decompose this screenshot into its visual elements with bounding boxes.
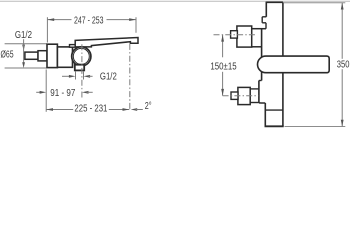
bottom neck lines — [250, 88, 259, 90]
outlet top interior line — [265, 109, 283, 111]
dimension 225-231 arrows — [46, 108, 53, 111]
2 degree reference dash-dot line — [129, 44, 131, 109]
dimension 350 extension line bottom — [285, 126, 346, 128]
dimension 91-97 left arrow (outside) — [36, 91, 40, 93]
top border line — [0, 0, 350, 2]
dimension Ø65 extension line bottom — [5, 67, 47, 69]
bottom edge of outlet — [265, 125, 284, 127]
dimension Ø65 line — [23, 44, 25, 63]
top outlet box: top edge — [266, 1, 283, 3]
top outlet box: left edge — [265, 2, 267, 17]
union collar — [38, 51, 47, 61]
svg-text:350: 350 — [337, 59, 350, 70]
dimension Ø65 bottom arrow — [22, 62, 25, 68]
svg-text:247 - 253: 247 - 253 — [74, 15, 104, 26]
shoulder line — [252, 28, 266, 30]
svg-text:2°: 2° — [145, 101, 152, 112]
lever handle (side view) — [75, 38, 138, 47]
lever bar (front view) — [258, 56, 330, 73]
outlet block — [75, 65, 84, 71]
cap step under lever — [70, 45, 76, 48]
svg-text:91 - 97: 91 - 97 — [50, 88, 75, 99]
svg-text:150±15: 150±15 — [210, 61, 237, 72]
bottom union centerline — [223, 95, 259, 97]
svg-text:G1/2: G1/2 — [100, 71, 117, 82]
dimension 247-253 extension line left — [46, 17, 48, 42]
valve body block — [57, 47, 72, 67]
dimension 247-253 arrow right — [129, 18, 136, 21]
body left edge below boss — [261, 72, 263, 81]
top union stub — [231, 31, 238, 38]
dimension 247-253 extension line right — [135, 17, 137, 33]
neck bottom line (top union) — [252, 46, 262, 48]
cartridge circle outer — [72, 47, 91, 66]
dimension 225-231 line — [46, 109, 73, 111]
body right edge (upper) — [282, 2, 284, 56]
top union centerline — [214, 34, 257, 36]
dimension Ø65 extension line top — [5, 43, 47, 45]
outlet G1/2 arrows — [62, 75, 71, 77]
svg-text:Ø65: Ø65 — [1, 49, 14, 60]
2 degree leader arrow — [131, 108, 138, 111]
dimension 350 arrows — [341, 3, 344, 10]
wall stub (G1/2 tail) — [25, 52, 38, 59]
bottom union flange — [238, 87, 250, 104]
vertical centerline through cartridge — [81, 44, 83, 98]
lower body left edge — [258, 81, 260, 103]
dimension 350 extension line top — [284, 2, 346, 4]
G1/2 leader line with down arrow — [23, 39, 25, 48]
dimension 350 line — [341, 3, 343, 59]
outlet G1/2 extension lines — [75, 72, 77, 80]
dimension 247-253 line — [47, 19, 71, 21]
corner to outlet column — [259, 102, 265, 104]
dimension 150±15 arrows — [221, 35, 224, 42]
body right edge (lower) — [282, 72, 284, 126]
top outlet box: left tab — [262, 16, 266, 18]
body left edge upper — [261, 29, 263, 58]
cartridge circle inner — [73, 48, 89, 64]
bottom union stub — [231, 92, 238, 99]
dimension 91-97 / 225-231 shared extension line — [45, 70, 47, 112]
escutcheon slab Ø65 — [47, 44, 57, 67]
dimension 91-97 right arrow (outside) — [82, 91, 89, 94]
outlet column left edge — [264, 103, 266, 126]
step to lower body — [259, 80, 262, 82]
top union flange — [237, 26, 252, 47]
svg-text:225 - 231: 225 - 231 — [74, 104, 107, 115]
dimension 247-253 arrow left — [47, 18, 54, 21]
dimension 150±15 line — [222, 35, 224, 58]
